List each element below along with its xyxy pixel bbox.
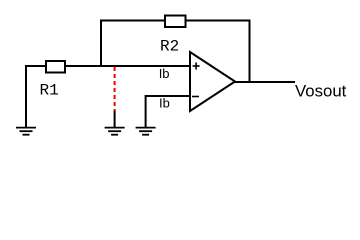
wire feedback right vertical <box>249 20 251 84</box>
resistor R1 <box>46 61 65 73</box>
wire ground stem right <box>145 95 147 127</box>
wire feedback left vertical <box>100 21 102 67</box>
svg-text:Vosout: Vosout <box>295 81 347 100</box>
op-amp U1 triangle <box>190 52 235 111</box>
wire left vertical to ground <box>25 65 27 127</box>
svg-text:R2: R2 <box>160 38 179 56</box>
op-amp minus input marker <box>192 96 199 98</box>
wire inverting input horizontal <box>146 95 190 97</box>
ground (middle, under red dash) <box>105 128 125 135</box>
svg-text:Ib: Ib <box>159 96 170 111</box>
wire main input horizontal <box>25 65 190 67</box>
resistor R2 <box>165 16 186 28</box>
node red dashed offset path <box>114 67 116 111</box>
wire output horizontal <box>234 81 295 83</box>
wire ground stem middle <box>114 111 116 128</box>
svg-text:Ib: Ib <box>159 66 170 81</box>
ground (right, inverting input) <box>136 128 156 135</box>
op-amp plus input marker <box>193 63 200 70</box>
wire feedback top horizontal <box>100 20 250 22</box>
ground (left, input) <box>16 128 36 135</box>
svg-text:R1: R1 <box>40 82 59 100</box>
